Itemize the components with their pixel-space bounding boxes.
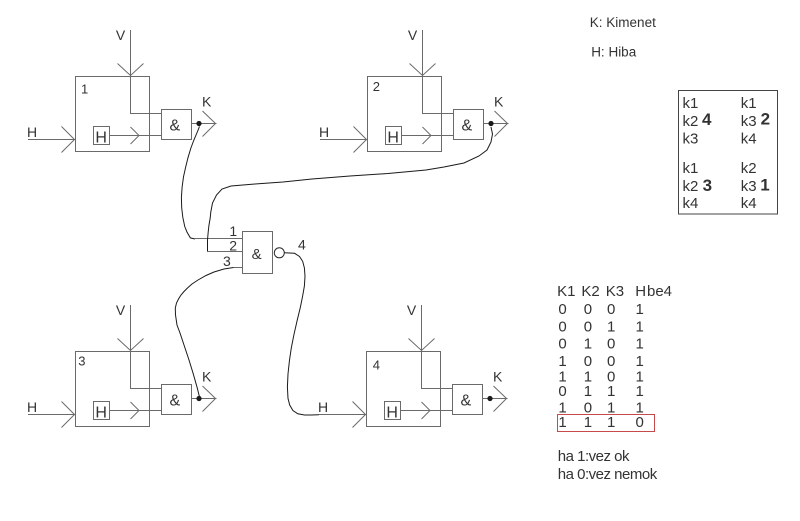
svg-text:k2: k2 [683, 178, 699, 195]
svg-text:4: 4 [298, 236, 306, 252]
svg-text:1: 1 [636, 336, 644, 353]
svg-text:&: & [252, 246, 262, 263]
svg-text:1: 1 [558, 414, 566, 431]
svg-text:K: Kimenet: K: Kimenet [590, 15, 656, 30]
svg-text:0: 0 [584, 301, 592, 318]
svg-text:0: 0 [558, 301, 566, 318]
svg-text:k3: k3 [741, 178, 757, 195]
svg-text:0: 0 [636, 414, 644, 431]
svg-text:2: 2 [373, 79, 380, 94]
svg-text:k2: k2 [741, 160, 757, 177]
svg-text:0: 0 [558, 383, 566, 400]
svg-text:K2: K2 [581, 283, 599, 300]
svg-text:1: 1 [584, 414, 592, 431]
svg-text:0: 0 [607, 336, 615, 353]
svg-text:k4: k4 [683, 195, 699, 212]
svg-text:1: 1 [636, 318, 644, 335]
svg-text:k1: k1 [741, 95, 757, 112]
svg-text:0: 0 [558, 318, 566, 335]
svg-text:k3: k3 [683, 131, 699, 148]
svg-text:k1: k1 [683, 160, 699, 177]
svg-text:1: 1 [81, 82, 88, 97]
svg-text:2: 2 [761, 110, 770, 129]
svg-text:3: 3 [223, 253, 231, 269]
svg-text:k1: k1 [683, 95, 699, 112]
svg-text:1: 1 [607, 383, 615, 400]
svg-text:3: 3 [703, 176, 712, 195]
svg-text:1: 1 [636, 301, 644, 318]
svg-text:1: 1 [760, 175, 769, 194]
svg-text:k2: k2 [683, 113, 699, 130]
svg-text:H: Hiba: H: Hiba [591, 45, 637, 60]
svg-text:1: 1 [636, 383, 644, 400]
svg-text:4: 4 [373, 357, 380, 372]
svg-text:H: H [635, 283, 646, 300]
svg-text:K1: K1 [557, 283, 575, 300]
svg-text:ha 1:vez ok: ha 1:vez ok [558, 448, 630, 465]
svg-text:ha 0:vez nemok: ha 0:vez nemok [558, 466, 658, 483]
svg-text:4: 4 [702, 110, 712, 129]
svg-text:1: 1 [607, 414, 615, 431]
svg-text:1: 1 [607, 318, 615, 335]
svg-text:k4: k4 [741, 195, 757, 212]
svg-text:1: 1 [584, 336, 592, 353]
svg-text:0: 0 [584, 318, 592, 335]
svg-text:K3: K3 [606, 283, 624, 300]
svg-text:k4: k4 [741, 131, 757, 148]
svg-text:0: 0 [607, 301, 615, 318]
svg-text:3: 3 [78, 354, 85, 369]
svg-text:k3: k3 [741, 113, 757, 130]
svg-text:0: 0 [558, 336, 566, 353]
svg-text:2: 2 [229, 237, 237, 253]
svg-text:be4: be4 [647, 283, 672, 300]
svg-text:1: 1 [584, 383, 592, 400]
